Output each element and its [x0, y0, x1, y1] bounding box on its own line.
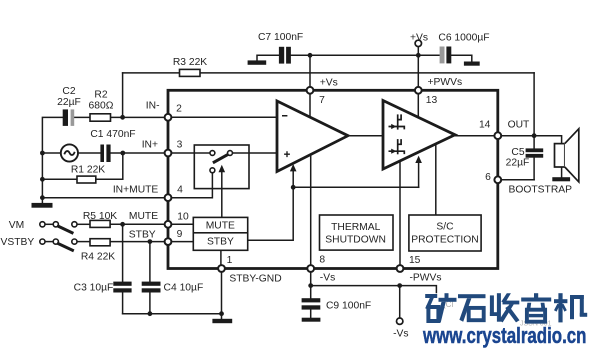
wire IN+MUTE line	[42, 197, 168, 199]
svg-text:SHUTDOWN: SHUTDOWN	[325, 235, 386, 246]
wire -Vs row	[311, 286, 437, 293]
wire feedback riser right	[533, 73, 535, 136]
wire cross line to power arrow	[293, 186, 418, 188]
svg-text:VSTBY: VSTBY	[1, 237, 35, 248]
wire stby row R4 to pin9	[110, 241, 168, 243]
signal source V1	[61, 144, 78, 161]
wire VSTBY switch to R4	[77, 241, 90, 243]
terminal -Vs circle	[397, 318, 403, 324]
wire MUTE arrow shaft	[221, 172, 223, 218]
svg-text:C6 1000µF: C6 1000µF	[438, 33, 489, 44]
wire pin4 riser to switch	[168, 173, 212, 198]
svg-text:R5 10K: R5 10K	[83, 211, 117, 222]
capacitor C5 22uF plates	[526, 148, 544, 152]
char kuang	[425, 293, 456, 322]
wire STBY box to pin1 riser	[220, 250, 222, 265]
capacitor C3 10uF plates	[113, 282, 131, 286]
svg-text:10: 10	[177, 211, 189, 222]
mosfet symbol lower in power stage	[389, 139, 405, 154]
wire S/C box riser	[435, 144, 437, 215]
svg-text:9: 9	[177, 229, 183, 240]
wire source line rail to source	[42, 152, 60, 154]
capacitor C4 10uF plates	[142, 282, 161, 286]
IC pin circles	[165, 87, 502, 272]
svg-text:S/C: S/C	[436, 222, 454, 233]
svg-text:15: 15	[409, 255, 421, 266]
wire +Vs riser to pin7	[309, 55, 311, 90]
svg-text:7: 7	[319, 95, 325, 106]
wire C6 ground lead	[451, 55, 472, 61]
THERMAL SHUTDOWN box	[320, 215, 394, 250]
wire R2 to pin 2	[111, 116, 169, 118]
mute arrow head	[219, 165, 226, 172]
svg-text:VM: VM	[9, 220, 24, 231]
wire bottom gnd line	[123, 313, 222, 315]
char shi	[458, 294, 486, 322]
wire supply top line	[291, 54, 440, 56]
wire VM switch to R5	[77, 223, 90, 225]
svg-text:OUT: OUT	[508, 119, 530, 130]
switch VM contacts	[40, 222, 45, 227]
wire C7 ground lead	[257, 55, 279, 60]
wire mute row R5 to pin10	[110, 223, 168, 225]
speaker LS1	[555, 144, 565, 167]
svg-text:-PWVs: -PWVs	[410, 273, 442, 284]
wire op-amp1 tip to power amp	[348, 135, 383, 137]
resistor R2 680ohm	[90, 114, 111, 121]
svg-text:+PWVs: +PWVs	[428, 77, 463, 88]
arrow into op-amp1 from stby	[290, 164, 297, 171]
svg-text:IN+MUTE: IN+MUTE	[113, 184, 159, 195]
svg-text:+Vs: +Vs	[320, 77, 338, 88]
wire C1 to pin 3	[111, 152, 168, 154]
wire left input rail	[42, 117, 62, 203]
wire C9 stub top	[310, 286, 312, 299]
wire -Vs terminal drop	[399, 286, 401, 318]
capacitor C7 100nF plates	[279, 47, 284, 64]
svg-text:3: 3	[177, 139, 183, 150]
svg-text:C2: C2	[62, 86, 75, 97]
svg-text:680Ω: 680Ω	[89, 101, 114, 112]
wire speaker to ground	[561, 167, 563, 177]
svg-text:R3 22K: R3 22K	[173, 57, 207, 68]
ground bar C7	[248, 60, 267, 64]
svg-text:C1 470nF: C1 470nF	[90, 129, 135, 140]
wire pin7 riser	[309, 90, 311, 117]
svg-text:THERMAL: THERMAL	[331, 222, 380, 233]
svg-text:6: 6	[485, 172, 491, 183]
wire pin10 to MUTE box	[168, 223, 193, 225]
switch VSTBY contacts	[40, 239, 45, 244]
svg-text:C7 100nF: C7 100nF	[258, 32, 303, 43]
capacitor C2 22uF plates	[63, 109, 68, 126]
svg-text:MUTE: MUTE	[129, 211, 158, 222]
IC TDA body outline	[168, 90, 498, 268]
svg-text:13: 13	[426, 95, 438, 106]
svg-text:IN+: IN+	[142, 139, 158, 150]
char yin	[521, 293, 551, 322]
wire C4 bottom stub	[149, 293, 151, 314]
wire STBY out to riser	[248, 187, 294, 240]
svg-text:8: 8	[319, 254, 325, 265]
ground bar speaker	[552, 177, 570, 181]
wire +Vs riser to pin13	[417, 55, 419, 90]
wire OUT to speaker	[498, 136, 562, 144]
svg-text:-Vs: -Vs	[320, 273, 335, 284]
svg-text:C4 10µF: C4 10µF	[164, 283, 204, 294]
ground bar C9	[302, 318, 321, 322]
svg-text:BOOTSTRAP: BOOTSTRAP	[509, 184, 573, 195]
wire C9 stub bottom	[310, 310, 312, 318]
wire C4 riser	[149, 242, 151, 282]
svg-text:C9 100nF: C9 100nF	[326, 300, 371, 311]
svg-text:+Vs: +Vs	[410, 33, 428, 44]
char ji	[554, 293, 587, 322]
capacitor C1 470nF plates	[100, 145, 104, 163]
wire R1 to node after C1	[96, 153, 123, 179]
wire pin13 riser	[417, 90, 419, 117]
power stage U1b triangle	[383, 101, 455, 170]
switch lever	[213, 153, 230, 163]
ground bar C6	[464, 62, 480, 66]
watermark chinese characters	[425, 293, 587, 322]
svg-text:STBY-GND: STBY-GND	[229, 274, 281, 285]
STBY internal box	[193, 233, 247, 251]
svg-text:R1 22K: R1 22K	[71, 165, 105, 176]
svg-text:22µF: 22µF	[506, 158, 530, 169]
resistor R3 22K	[180, 69, 201, 76]
wire riser to op-amp1 arrow	[292, 171, 294, 188]
mute switch box	[194, 145, 249, 189]
switch VM lever	[57, 226, 73, 234]
svg-text:2: 2	[176, 104, 182, 115]
svg-text:IN-: IN-	[146, 101, 160, 112]
mosfet symbol upper in power stage	[389, 114, 405, 129]
svg-text:MUTE: MUTE	[206, 221, 235, 232]
wire pin3 to switch box	[168, 152, 210, 154]
wire C3 bottom stub	[122, 293, 124, 314]
capacitor C9 100nF plates	[302, 298, 321, 302]
svg-text:C5: C5	[511, 147, 524, 158]
op-amp U1 plus input mark	[284, 151, 290, 157]
S/C PROTECTION box	[409, 215, 481, 251]
op-amp U1 input stage triangle	[277, 101, 348, 172]
wire switch to op-amp +	[233, 152, 277, 154]
wire source to C1	[78, 152, 100, 154]
ground bar left rail	[32, 203, 53, 208]
wire feedback riser left	[122, 73, 124, 117]
resistor R4 22K	[90, 239, 110, 246]
svg-text:14: 14	[479, 119, 491, 130]
char shou	[490, 293, 520, 322]
wire C3 riser	[122, 224, 124, 281]
svg-text:-Vs: -Vs	[393, 328, 408, 339]
wire pin2 to op-amp	[168, 116, 277, 118]
wire C5 top stub	[533, 136, 535, 149]
wire bootstrap pin6 to C5	[498, 179, 534, 181]
wire feedback top line	[123, 72, 534, 74]
wire pin1 drop to ground	[221, 269, 223, 319]
wire C5 bottom stub	[533, 158, 535, 180]
wire pin15 riser from power amp	[399, 161, 401, 269]
svg-text:R2: R2	[94, 90, 107, 101]
ground bar stby-gnd pin1	[212, 319, 232, 323]
switch VSTBY lever	[57, 243, 74, 251]
svg-text:C3 10µF: C3 10µF	[74, 283, 114, 294]
wire +Vs terminal stub	[417, 47, 419, 56]
capacitor C6 1000uF plates	[440, 47, 445, 64]
svg-text:4: 4	[177, 184, 183, 195]
wire R1 branch	[42, 178, 77, 180]
arrow into power stage	[415, 156, 422, 163]
svg-text:STBY: STBY	[207, 237, 234, 248]
wire C2 to R2	[74, 116, 90, 118]
MUTE internal box	[193, 217, 247, 232]
svg-text:STBY: STBY	[129, 229, 156, 240]
svg-text:PROTECTION: PROTECTION	[411, 234, 479, 245]
svg-text:1: 1	[227, 255, 233, 266]
wire pin8 riser from op-amp1	[310, 155, 312, 286]
op-amp U1 minus input mark	[282, 115, 287, 117]
switch contact circles	[210, 151, 215, 156]
svg-text:www.crystalradio.cn: www.crystalradio.cn	[422, 323, 586, 348]
wire power arrow riser	[418, 163, 420, 188]
svg-text:R4 22K: R4 22K	[81, 252, 115, 263]
svg-text:22µF: 22µF	[57, 97, 81, 108]
wire power tip to pin 14	[455, 135, 498, 137]
resistor R1 22K	[77, 176, 96, 183]
terminal +Vs circle	[415, 40, 421, 46]
resistor R5 10K	[90, 220, 110, 227]
wire pin9 to STBY box	[168, 241, 193, 243]
